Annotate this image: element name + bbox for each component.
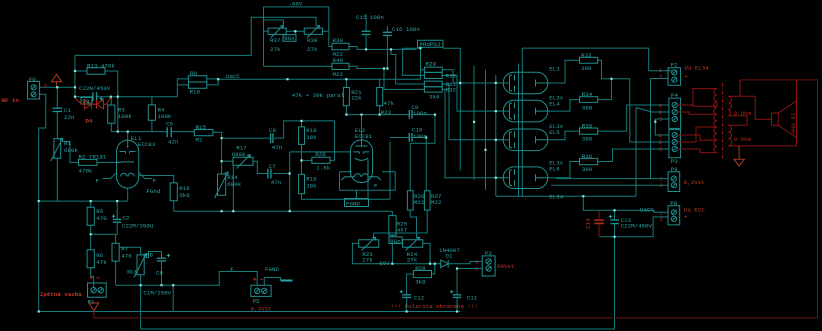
svg-text:47n: 47n [272,144,282,151]
capacitor C13 [610,220,619,224]
tube EL4 grid [514,103,516,120]
svg-text:6,3Vst: 6,3Vst [251,305,272,312]
capacitor C6 [157,258,166,261]
wire R40 right row [349,66,388,68]
wire R3 top stub [110,97,112,105]
svg-text:+: + [684,213,688,220]
svg-text:3k3: 3k3 [126,268,137,275]
svg-text:P9: P9 [671,166,678,173]
capacitor C2 plus [112,215,115,218]
wire R26 bottom [410,210,416,238]
wire bus C [485,70,487,190]
svg-text:R28: R28 [415,265,426,272]
transformer secondary winding 2 [728,125,732,146]
wire P5 right pin up [264,278,280,286]
wire R16 top [139,176,174,183]
wire vertical input node [74,55,76,96]
tube EL3 cathode bar [510,75,513,91]
svg-text:42n: 42n [168,139,178,146]
wire F2 pin2 heater column [651,79,669,179]
wire R4 top stub [151,97,153,105]
wire PROPOJ right column [443,48,460,170]
wire P9 pin2 heater [551,179,668,186]
svg-text:RGn: RGn [284,35,294,42]
wire cathode stub EL5 [496,139,510,141]
svg-text:R6: R6 [96,252,103,259]
capacitor C15 stem [365,14,367,49]
svg-text:27k: 27k [307,46,318,53]
wire screen bus 2 to F2 [522,48,671,196]
svg-text:R16: R16 [179,185,190,192]
connector F0 [28,81,40,99]
svg-text:47k: 47k [96,259,107,266]
svg-text:R38: R38 [307,37,318,44]
capacitor C1 [53,108,63,111]
wire R21 top [345,79,347,87]
red wire P4 pin1 tap [677,101,717,106]
resistor R36 [580,158,598,164]
junction dots right section [495,82,497,84]
svg-text:4k7: 4k7 [397,226,408,233]
wire C10 left [390,137,409,139]
svg-text:R35: R35 [582,123,593,130]
svg-text:16 Ohm: 16 Ohm [790,113,797,134]
svg-text:C1: C1 [64,107,71,114]
svg-text:D1: D1 [446,252,453,259]
wire UaCC rail [218,78,420,80]
trimmer R24 [403,237,423,251]
red wire speaker top [796,80,798,101]
wire R4 bottom stub [151,120,153,131]
resistor R33 [580,57,598,63]
label box C3 [81,98,92,105]
junction dots mid section [294,30,296,32]
svg-text:D4: D4 [86,118,93,125]
wire rail mid y211 [174,210,393,212]
wire cathode return row [496,195,636,197]
tube EL5 [503,129,548,151]
svg-text:47k + 39k paral: 47k + 39k paral [292,92,345,99]
svg-text:M22: M22 [333,71,344,78]
wire R6 bottom to P1 [91,268,94,288]
transformer primary winding 2 [714,114,717,127]
wire R19 bottom row [302,142,391,200]
capacitor C11 [453,295,462,298]
resistor R10 [188,82,206,88]
wire C10 right [412,138,426,191]
wire R29 right to EL3 grid [442,70,503,83]
tube EL5 anode bar [536,136,548,143]
wire input top long [75,17,316,55]
svg-text:1.5k: 1.5k [316,164,330,171]
wire R37 left stub [264,30,269,32]
svg-text:3: 3 [659,146,663,153]
svg-text:390: 390 [582,166,593,173]
wire R9 R10 left [177,79,188,97]
wire R7 bottom [115,261,117,285]
wire R8 bottom [140,275,142,285]
wire EL1 anode stub [127,132,129,141]
tube EL2 filament [341,174,381,180]
svg-text:C8: C8 [269,127,276,134]
resistor R26 [407,191,413,210]
resistor R7 [112,243,119,261]
svg-text:Ua EL34: Ua EL34 [684,64,709,71]
svg-text:R33: R33 [581,52,592,59]
svg-text:FGND: FGND [346,200,360,207]
wire R39 left [329,46,332,48]
capacitor C11 plus [450,290,453,293]
resistor R2 [79,159,98,165]
resistor R9 [188,76,206,82]
svg-text:R30: R30 [446,73,457,80]
wire EL5 anode to R35 [548,131,580,140]
resistor R32 [424,87,442,92]
red supply arrow [52,74,62,87]
tube EL5 cathode bar [510,132,513,148]
svg-text:P1: P1 [88,298,95,305]
svg-text:R37: R37 [270,37,281,44]
wire R32 right to EL6 grid [442,89,503,177]
wire R7 top stub [115,234,117,243]
svg-text:R32: R32 [446,86,457,93]
red wire secondary bottom [728,138,796,146]
svg-text:R1: R1 [64,140,71,147]
wire C9 right [410,115,435,191]
wire R24 right drop [423,243,430,263]
red wire secondary top [728,80,740,96]
capacitor C14 red [594,220,604,223]
ground rail A [39,311,461,313]
wire R8 wiper to C6 [146,252,162,259]
wire R30 left [403,48,425,75]
wire R36 to P3 pin3 [598,149,669,162]
svg-text:1: 1 [659,132,663,139]
svg-text:M22: M22 [431,199,442,206]
svg-text:470: 470 [121,252,132,259]
svg-text:F: F [153,177,157,184]
svg-text:C22M/450V: C22M/450V [621,222,653,229]
wire R2 to EL1 [97,161,121,163]
wire R8 top link [119,247,140,255]
wire R17 right to C7 [253,161,267,173]
resistor R34 [580,97,598,103]
svg-text:ECC83: ECC83 [138,141,156,148]
tube EL6 anode bar [536,174,548,181]
wire EL1 cathode down [127,188,129,201]
red ground arrow transformer [734,146,745,166]
tube EL3 anode bar [536,80,548,87]
red feedback wire P1 [93,311,95,318]
label box FGnd EL2 [345,199,369,207]
svg-text:C5: C5 [166,121,173,128]
wire R31 left [391,49,424,84]
wire C12 bottom [406,298,408,312]
svg-text:FGND: FGND [265,266,279,273]
resistor R31 [424,81,442,87]
svg-text:C11: C11 [467,294,478,301]
wire R35 to P4 pin1 [598,105,669,131]
svg-text:R5: R5 [96,208,103,215]
wire R17 left [222,160,233,162]
wire node row y97 [75,96,177,98]
svg-text:27k: 27k [362,256,373,263]
wire R5 top [90,201,92,207]
connector P4 [669,98,681,128]
svg-text:R20: R20 [315,151,326,158]
svg-text:R19: R19 [306,175,317,182]
wire drop to bottom rail left [172,285,174,311]
svg-text:P2: P2 [485,250,492,257]
resistor R29 [424,67,442,72]
wire anode rail EL2 [346,106,409,146]
jumper PROPOJ label box [418,40,444,47]
tube EL4 cathode bar [510,103,513,119]
wire R16 bottom to rail [173,201,175,212]
svg-text:2: 2 [475,265,479,272]
wire drop to lowest rail [140,285,142,329]
resistor R39 [332,43,349,49]
junction dots left section [74,70,76,72]
svg-text:18k: 18k [306,134,317,141]
wire P4 pin3 bridge P3 pin1 [655,119,669,135]
tube EL3 grid [514,74,516,91]
svg-text:-60V: -60V [289,1,303,8]
svg-text:C22N/450V: C22N/450V [79,85,111,92]
svg-text:680k: 680k [227,181,241,188]
svg-text:R2 TR191: R2 TR191 [79,153,107,160]
svg-text:470: 470 [96,215,107,222]
label box RGn top [283,35,296,41]
svg-text:22k: 22k [351,94,362,101]
heater bar symbol [281,280,293,282]
svg-text:3: 3 [659,116,663,123]
wire D1 cathode to P2 [448,262,482,264]
wire R31 right to EL5 grid [442,84,503,140]
svg-text:100n: 100n [413,133,427,140]
svg-text:F: F [374,183,378,190]
svg-text:EL3: EL3 [549,65,560,72]
capacitor C13 plus [609,215,612,218]
svg-text:27k: 27k [270,46,281,53]
tube EL6 grid [514,169,516,186]
capacitor C6 plus [167,254,170,257]
trimmer R37 [268,25,286,37]
red wire P3 pin2 tap [677,127,717,142]
trimmer R23 [359,237,379,251]
resistor R6 [87,250,94,268]
wire C2 top [116,201,118,219]
wire P4 pin2 diag [636,108,669,197]
svg-text:EL6: EL6 [549,165,560,172]
wire R20 right [330,121,335,160]
svg-text:F0: F0 [29,76,36,83]
red wire P3 pin1 tap [677,135,717,140]
svg-text:3k0: 3k0 [429,94,440,101]
svg-text:-60V: -60V [376,260,390,267]
wire R25 column RGn [391,211,393,264]
svg-text:F: F [230,266,234,273]
svg-text:ECC81: ECC81 [355,133,373,140]
transformer core [722,83,724,160]
resistor R21 [343,88,349,106]
wire R15 right to EL2 grid column [213,132,222,174]
wire C11 bottom [456,298,458,312]
resistor R18 [299,127,305,144]
svg-text:C16 100n: C16 100n [392,26,420,33]
wire R18 top stub [301,121,303,127]
svg-text:C12: C12 [414,294,425,301]
tube EL4 anode bar [536,108,548,115]
svg-text:EL5: EL5 [549,129,560,136]
svg-text:C2: C2 [123,214,130,221]
connector P5 [251,285,271,296]
svg-text:PROPOJ: PROPOJ [420,41,441,48]
svg-text:C22M/350U: C22M/350U [122,222,154,229]
wire R40 left long [264,65,333,67]
capacitor C16 stem [386,26,388,69]
wire R18 R19 column [301,144,303,174]
tube EL1 filament [121,173,135,176]
svg-text:3k9: 3k9 [415,279,426,286]
wire F0 pin1 to node [40,86,75,88]
wire cathode stub EL3 [496,82,510,84]
svg-text:UaCC: UaCC [226,73,240,80]
wire R33 R34 join [598,60,612,99]
transformer secondary winding 1 [728,96,731,116]
red wire primary top to F2 [693,89,717,105]
svg-text:P8: P8 [670,200,677,207]
wire R5 bottom row [91,222,118,249]
svg-text:390: 390 [581,65,592,72]
potentiometer R8 [134,254,146,278]
svg-text:R13 470k: R13 470k [87,62,115,69]
wire EL4 anode to R34 [548,100,580,112]
svg-text:R14: R14 [227,174,238,181]
connector P2 [482,256,495,276]
svg-text:M1: M1 [196,136,203,143]
tube EL2 cathode [355,158,368,182]
diode pair D4 [75,98,111,109]
svg-text:47k: 47k [384,100,395,107]
svg-text:22n: 22n [64,114,74,121]
filament frame EL2 [340,172,396,191]
wire R22 top [379,79,381,87]
wire UaCC to P8 [583,196,668,212]
transformer primary winding 3 [714,127,717,153]
svg-text:2: 2 [660,182,664,189]
svg-text:P3: P3 [671,158,678,165]
resistor R4 [148,105,155,120]
ground rail B [141,237,615,329]
capacitor C15 [362,31,371,34]
capacitor C16 [383,32,392,35]
svg-text:C15 100n: C15 100n [356,14,384,21]
svg-text:R10: R10 [190,89,201,96]
connector P9 [668,172,680,192]
red wire P4 pin2 tap [677,112,717,114]
capacitor C14 stems [598,210,600,237]
svg-text:470k: 470k [79,167,93,174]
connector F2 [668,68,681,86]
svg-text:60Vst: 60Vst [497,263,514,270]
tube EL1 grid [120,152,136,154]
resistor R19 [299,174,305,193]
svg-text:P4: P4 [671,92,678,99]
capacitor C3 [93,92,97,101]
svg-text:FGnd: FGnd [146,188,160,195]
svg-text:27k: 27k [407,256,418,263]
diode D1 [441,260,449,268]
svg-text:EL4: EL4 [549,101,560,108]
tube EL2 anode [356,139,368,146]
potentiometer R1 [51,138,63,161]
tube EL2 ECC81 [350,140,372,183]
svg-text:100k: 100k [118,113,132,120]
trimmer R38 [304,25,322,37]
svg-text:P5: P5 [253,298,260,305]
wire R3 bottom to anode row [111,123,194,131]
svg-text:NF in: NF in [2,97,20,104]
wire R13 left stub [75,70,87,72]
red plus minus P1 [90,276,100,279]
resistor R20 [312,157,330,163]
wire RGn stub [294,31,296,35]
wire R39 right row [349,47,421,50]
svg-text:Zpětná vazba: Zpětná vazba [40,291,82,298]
svg-text:2: 2 [44,83,48,90]
svg-text:1: 1 [659,102,663,109]
tube EL1 anode [117,140,134,162]
wire R13 right to anode column [105,71,118,132]
svg-text:R22: R22 [381,109,392,116]
svg-text:2: 2 [659,109,663,116]
svg-text:6,3Vst: 6,3Vst [684,179,705,186]
red ground arrow P1 [89,303,98,311]
resistor R35 [580,128,598,134]
svg-text:R36: R36 [582,153,593,160]
wire C6 bottom [161,261,163,285]
wire bias top row [374,233,428,238]
wire C1 branch [56,87,58,201]
wire R9 R10 right to UaCC [207,79,218,85]
svg-text:!!! Polarita obracena !!!: !!! Polarita obracena !!! [391,303,478,310]
svg-text:C1M/250V: C1M/250V [143,289,171,296]
resistor R27 [424,191,430,210]
wire F0 pin2 down [39,94,46,311]
svg-text:8 Ohm: 8 Ohm [734,110,752,117]
wire R20 left stub [302,159,312,161]
connector P1 [88,283,107,297]
resistor R16 [170,183,177,201]
transformer primary winding 1 [714,89,717,115]
capacitor C7 [268,169,271,179]
svg-text:2: 2 [659,73,663,80]
resistor R28 [413,271,431,278]
potentiometer R14 [215,172,229,198]
svg-text:+: + [684,73,688,80]
svg-text:390: 390 [582,104,593,111]
svg-text:C6: C6 [156,270,163,277]
svg-text:F2: F2 [671,62,678,69]
svg-text:1: 1 [475,258,479,265]
svg-text:R34: R34 [582,91,593,98]
svg-text:C7: C7 [269,163,276,170]
wire ground row left [39,200,128,202]
wire R17 drop [232,165,234,211]
svg-text:EL34: EL34 [549,193,563,200]
wire -60V bias row [352,243,440,263]
